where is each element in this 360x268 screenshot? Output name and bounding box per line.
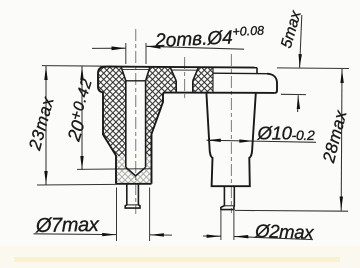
hole1 chamfer right bbox=[146, 67, 150, 81]
hole1 mouth line bbox=[122, 68, 150, 70]
outline: left bushing right profile bbox=[152, 93, 165, 184]
outline: plate right rounded end bbox=[267, 74, 277, 93]
svg-text:Ø2max: Ø2max bbox=[254, 220, 315, 243]
extension line plate top right bbox=[277, 67, 349, 70]
hatch: plate right of second hole bbox=[193, 67, 213, 93]
dim line dia4 left piece bbox=[92, 47, 126, 49]
arrow dia7 right-in bbox=[150, 233, 164, 236]
extension line 23max bottom bbox=[37, 183, 116, 186]
right pin bbox=[221, 186, 234, 209]
hole1 chamfer base line bbox=[126, 80, 146, 82]
arrow 20 bottom bbox=[80, 156, 83, 170]
extension lines dia4 bbox=[125, 43, 127, 64]
yellow scan band at bottom bbox=[14, 257, 340, 262]
dim line dia10 bbox=[207, 140, 317, 142]
left pin bbox=[125, 184, 140, 208]
hole1 bore walls bbox=[126, 81, 146, 168]
dim line dia7 (shelf under label + arrow) bbox=[34, 233, 117, 236]
centerline hole 2 bbox=[184, 57, 186, 99]
dim line dia7 right piece bbox=[150, 234, 172, 236]
centerline right bushing bbox=[230, 54, 232, 213]
arrow dia2 right-in bbox=[234, 235, 249, 238]
arrow dia10 left bbox=[207, 139, 221, 142]
outline: left bushing left profile bbox=[103, 92, 116, 183]
hole2 chamfer right bbox=[193, 67, 199, 81]
arrow 23max bottom bbox=[44, 171, 47, 185]
dim line 28max bbox=[340, 69, 343, 211]
extension lines dia7 bbox=[116, 188, 118, 242]
outline: plate top bbox=[108, 67, 257, 68]
dim line 5max lower bbox=[297, 95, 300, 112]
right bushing outline bbox=[206, 93, 255, 186]
extension line plate bottom right (5max) bbox=[281, 93, 306, 95]
outline: plate right step bbox=[256, 68, 258, 74]
hole2 bore walls bbox=[176, 81, 193, 93]
svg-text:Ø7max: Ø7max bbox=[35, 214, 100, 237]
arrow dia4 left bbox=[112, 46, 126, 50]
arrow 28max top bbox=[340, 69, 343, 83]
arrow dia7 left-in bbox=[102, 233, 116, 236]
right pin foot line bbox=[224, 205, 234, 207]
extension line top-left bbox=[42, 65, 109, 68]
hole1 cone bottom bbox=[126, 167, 146, 176]
dim line dia2 right piece / label underline bbox=[234, 237, 313, 240]
arrow 20 top bbox=[80, 66, 83, 80]
outline: plate bottom bbox=[165, 92, 275, 94]
arrow 5max up bbox=[297, 95, 300, 109]
hole2 mouth line bbox=[171, 69, 198, 71]
hole1 chamfer left bbox=[121, 67, 126, 81]
arrow dia2 left-in bbox=[207, 235, 221, 238]
arrow 28max bottom bbox=[340, 197, 343, 211]
dim line dia2 left piece bbox=[203, 235, 221, 237]
section break line bbox=[212, 67, 214, 93]
extension line pin bottom right (28max) bbox=[235, 209, 348, 212]
dim shelf dia4 (under label) bbox=[146, 46, 244, 49]
cream strip at bottom bbox=[0, 246, 360, 268]
dim line 5max upper bbox=[300, 15, 302, 68]
arrow dia4 right bbox=[146, 45, 161, 49]
extension line 20+0.42 bottom / cone base bbox=[77, 168, 152, 171]
outline: bushing block bottom bbox=[116, 183, 152, 185]
arrow 5max down bbox=[299, 54, 302, 68]
outline: left bead bbox=[98, 67, 108, 93]
dim line 20+0.42 bbox=[81, 66, 83, 170]
hole2 chamfer left bbox=[170, 67, 176, 81]
arrow dia10 right bbox=[239, 139, 253, 142]
outline: step edge line across bbox=[213, 72, 267, 75]
hatch: sectioned plate + left bushing body bbox=[98, 67, 176, 184]
extension lines dia2 bbox=[220, 211, 222, 241]
faded scan area over lower block bbox=[116, 156, 152, 183]
arrow 23max top bbox=[44, 66, 47, 80]
dim line 23max bbox=[45, 66, 47, 185]
left pin foot line bbox=[127, 204, 139, 206]
centerline hole 1 bbox=[135, 29, 137, 214]
